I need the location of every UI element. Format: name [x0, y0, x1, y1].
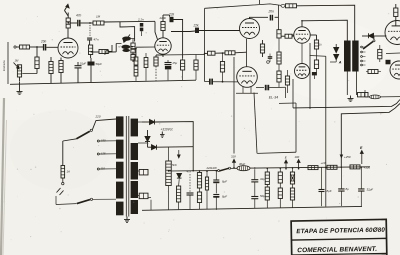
arrow tap A upper [334, 44, 339, 53]
wire tone to V2 grid [131, 48, 136, 50]
resistor Rx 146 [144, 58, 148, 68]
wire R6 right run [104, 20, 155, 23]
svg-text:47k: 47k [187, 170, 192, 174]
tap contact 110 [97, 168, 99, 170]
resistor R10 tone slope [131, 43, 135, 53]
resistor R16b middle drop [220, 62, 224, 73]
tube V3b phase splitter [237, 67, 258, 88]
transformer T2 secondary winding [131, 119, 138, 214]
negative feedback wire down [204, 8, 206, 81]
svg-text:1M: 1M [15, 59, 20, 63]
wire grid loop bottom [257, 152, 296, 153]
resistor R1 input series [20, 45, 30, 49]
capacitor C NFB series [209, 79, 213, 85]
wire speaker return long [293, 100, 400, 108]
resistor R27b mid right [368, 70, 378, 74]
arrow feed diode [177, 150, 180, 158]
resistor R16 NFB2 [225, 51, 235, 55]
tube V4b EL34 lower [295, 64, 310, 79]
capacitor C13 32uF [251, 197, 258, 199]
wire top rail NFB [205, 4, 281, 8]
diode D3 rectifier mid [145, 137, 150, 142]
cathode net V2 [162, 54, 164, 57]
resistor R19 below splitter [260, 44, 264, 53]
bottom ground rail [142, 206, 362, 210]
wire OT bottom left [346, 72, 348, 96]
resistor R27 heater tap [139, 169, 148, 175]
resistor R6 1M [93, 21, 104, 25]
wire branch to tone [120, 22, 135, 42]
resistor R8 [99, 50, 108, 54]
svg-text:20n: 20n [268, 10, 275, 14]
trimmer R34a upper [290, 172, 294, 184]
wire V4b grid drop [292, 79, 294, 108]
tube V5b EL34 right lower [390, 61, 400, 79]
arrow node 318 [233, 159, 236, 168]
ground bus top section [10, 80, 196, 84]
wire jack to R1 [16, 46, 20, 48]
wire V3a to V3b link [246, 39, 248, 67]
heater return drop [150, 200, 152, 210]
wire to primary top [92, 119, 116, 130]
resistor R25 top right [394, 8, 398, 17]
tap contact 125 [97, 153, 99, 155]
resistor R18 link [285, 34, 292, 38]
resistor R10c stack lower [134, 66, 138, 76]
capacitor C9 [187, 193, 194, 195]
tube V3a voltage amp [240, 19, 260, 39]
svg-text:5k6: 5k6 [172, 163, 177, 167]
wire loop top y114 [341, 104, 400, 168]
svg-text:32μF: 32μF [367, 188, 374, 192]
resistor R12 V2 plate 220k [161, 22, 165, 31]
secondary tap heater stub [138, 170, 139, 172]
svg-text:22k: 22k [193, 24, 200, 28]
wire jack2 right [109, 51, 116, 53]
wire V5 left [380, 35, 387, 37]
resistor R11 lower [131, 55, 135, 61]
wire R7 to R8 [90, 55, 92, 59]
wire C8 node up to NFB [278, 5, 280, 17]
ground OT [348, 96, 354, 102]
standby switch node a [218, 170, 220, 172]
resistor bleeder 207 [205, 177, 208, 190]
wire cap to loop [269, 86, 285, 88]
top edge stub wire [258, 0, 260, 4]
svg-text:100: 100 [295, 155, 300, 159]
wire C1 to V1 grid [46, 46, 58, 48]
transformer T2 primary winding [116, 116, 124, 215]
resistor R33a upper [278, 172, 282, 183]
input jack terminal [14, 46, 16, 48]
tube V4 EL34 upper [294, 27, 310, 43]
resistor R32 [265, 187, 269, 200]
resistor R4 cathode left [49, 62, 53, 74]
output transformer T1 primary [344, 41, 351, 72]
vertical long drop x234 [233, 57, 235, 154]
tube V1 triode [58, 38, 78, 58]
wire C8 node down [278, 17, 280, 29]
resistor R17 grid EL34 a [277, 30, 281, 38]
wire jack2 riser [115, 44, 117, 52]
capacitor C8 20n to output [270, 15, 273, 21]
svg-text:220: 220 [95, 115, 101, 119]
diode D4 rectifier lower [152, 145, 157, 150]
wire V1 plate [67, 28, 69, 38]
wire fuse up [62, 141, 64, 166]
title block outer box [291, 219, 387, 255]
capacitor C15 32uF [338, 189, 344, 191]
wire C8 right and down [275, 16, 279, 18]
capacitor C spk blk [386, 60, 391, 65]
resistor R35 dropper 1 [308, 166, 318, 170]
switch contact top [90, 129, 92, 131]
wire center tap long drop [325, 56, 327, 206]
junction dots [204, 53, 206, 55]
svg-text:150: 150 [101, 139, 106, 143]
svg-text:8μ: 8μ [346, 187, 350, 191]
resistor R14c 196 [194, 60, 198, 70]
resistor R32a upper [265, 172, 269, 185]
svg-text:Entrada: Entrada [2, 60, 6, 71]
svg-text:+310Vcc: +310Vcc [161, 128, 174, 132]
standby switch node b [229, 167, 231, 169]
wire V3b out to cap [256, 87, 264, 89]
resistor R15 NFB [208, 51, 216, 55]
wire R8 up [108, 45, 112, 52]
svg-text:+100: +100 [364, 165, 371, 169]
svg-text:47n: 47n [76, 14, 82, 18]
wire D2 out [155, 122, 194, 171]
speaker selector arm [363, 42, 373, 50]
capacitor C10 8uF [213, 180, 219, 182]
svg-text:32μ: 32μ [260, 177, 265, 181]
wire node down dashed [89, 25, 91, 37]
resistor R20d lower [277, 71, 281, 82]
wire C6 down [141, 31, 143, 36]
wire grid V5b [386, 52, 400, 55]
capacitor C4 10uF bypass [75, 66, 82, 68]
wire tone net [130, 46, 133, 48]
arrow feed 250 marker [340, 155, 344, 159]
tube V5 EL34 right upper [385, 21, 400, 45]
wire OT bottom right [356, 72, 358, 96]
svg-text:25μ: 25μ [172, 61, 178, 65]
wire into V2 grid [155, 22, 158, 40]
main B+ rail left [169, 170, 218, 172]
wire V4 link [301, 43, 303, 63]
selector feed wire [373, 36, 375, 40]
capacitor C1 20n coupling [43, 44, 46, 51]
wire plug bottom [55, 196, 57, 205]
svg-text:50μF: 50μF [96, 62, 103, 66]
resistor R10b stack upper [134, 57, 138, 65]
capacitor C13a 32uF upper [251, 180, 258, 182]
wire R17 down [278, 38, 280, 52]
svg-text:1A: 1A [67, 170, 71, 174]
capacitor C5 50uF black [88, 62, 95, 66]
node plate V1 [67, 22, 69, 24]
output transformer T1 secondary [352, 41, 358, 72]
resistor R9 cathode 2k2 [59, 61, 63, 73]
resistor R31 [197, 192, 201, 203]
wire grid loop left [254, 93, 257, 154]
svg-text:1M: 1M [96, 15, 101, 19]
resistor R24 cathode EL34 [314, 60, 318, 69]
mains plug symbol [57, 188, 64, 195]
svg-text:8μF: 8μF [327, 189, 332, 193]
speaker line 16ohm [370, 95, 381, 99]
title row divider [291, 238, 386, 240]
capacitor C16 32uF right [358, 189, 364, 191]
resistor R31a [197, 173, 201, 189]
capacitor C4b 25u V2 bypass [165, 63, 172, 65]
title bottom divider [292, 253, 387, 255]
resistor R7 [89, 45, 93, 55]
svg-text:47n: 47n [94, 38, 99, 42]
capacitor C6 2.2n [140, 23, 144, 27]
resistor R14b 182 [181, 60, 185, 70]
tube V2 triode [155, 38, 171, 54]
resistor R27c low right [358, 93, 369, 97]
svg-text:220k: 220k [159, 16, 167, 20]
wire V2 out [171, 31, 190, 33]
resistor R20c mid [277, 52, 281, 64]
wire V2 plate run right [174, 20, 183, 59]
resistor R26 speaker [378, 49, 382, 58]
svg-text:220k2W: 220k2W [206, 166, 218, 170]
mains switch arm top [63, 139, 77, 141]
tap contact 150 [97, 140, 99, 142]
main B+ rail right [250, 167, 370, 168]
wire C2 to R6 [81, 22, 93, 24]
svg-text:22k: 22k [168, 13, 175, 17]
svg-text:A: A [338, 61, 342, 65]
arrow net E out [285, 160, 288, 169]
wire V4 grid [292, 34, 294, 36]
secondary tap heater stub 2 [138, 195, 139, 197]
potentiometer tone 1 lens [122, 37, 131, 41]
svg-text:COMERCIAL BENAVENT.: COMERCIAL BENAVENT. [297, 246, 377, 254]
resistor R18b right mid [285, 76, 289, 85]
wire input ground drop [7, 42, 9, 84]
wire R13 to V3 [199, 30, 240, 32]
svg-text:E: E [285, 156, 287, 160]
wire R1 to node A [30, 46, 44, 48]
svg-text:125: 125 [101, 152, 106, 156]
wire cathode join splitter [183, 53, 205, 55]
svg-text:10μF: 10μF [80, 62, 87, 66]
fuse F1 [61, 166, 65, 179]
resistor R36 dropper 2 [327, 165, 337, 169]
diode D1 bias [369, 33, 374, 38]
speaker selector contacts [361, 46, 363, 48]
svg-text:20n: 20n [40, 40, 47, 44]
wire V3b bottom rail [236, 92, 258, 94]
svg-text:+10: +10 [321, 161, 326, 165]
wire V3b cathode legs [242, 87, 244, 94]
resistor R23 screen [314, 40, 318, 49]
svg-text:8μF: 8μF [222, 195, 227, 199]
wire tone to grid V2 [136, 46, 155, 48]
capacitor C11 8uF lower [213, 195, 219, 197]
resistor R14 [154, 57, 158, 66]
resistor R29 bleeder 5k6 tall [166, 161, 172, 186]
resistor R3 below node A [35, 57, 39, 69]
wire R22 to OT secondary [297, 5, 355, 40]
wire V4b to center tap [310, 55, 326, 58]
scan edge smudge left [1, 98, 4, 255]
secondary tap stub 1 [138, 121, 142, 123]
capacitor C3 47n grid [87, 38, 92, 40]
resistor R28 heater tap 2 [139, 193, 148, 199]
diode D5 [177, 174, 182, 179]
svg-text:110: 110 [101, 167, 106, 171]
arrow E out [360, 151, 363, 165]
arrow net 100 out [297, 160, 300, 169]
wire V3a plate up [250, 17, 269, 18]
resistor R5 plate 220k [66, 18, 70, 28]
wire R2 wiper link [22, 73, 37, 75]
capacitor C50n out [265, 85, 269, 91]
capacitor C14 8uF [319, 190, 325, 192]
resistor R22 NFB series 220k [286, 4, 297, 8]
wire V4 down [309, 43, 311, 108]
svg-text:8μF: 8μF [222, 180, 227, 184]
transformer T2 core [125, 116, 127, 217]
ground small rectifier [160, 132, 165, 138]
wire grid loop top [279, 102, 296, 104]
potentiometer tone 2 lower lens [122, 49, 130, 52]
ground symbol main [17, 89, 23, 95]
diode D2 rectifier top [150, 120, 155, 125]
svg-text:+250: +250 [344, 155, 351, 159]
capacitor C small mid [268, 57, 273, 59]
potentiometer tone 2 lens [121, 45, 130, 49]
svg-text:50μ: 50μ [260, 194, 265, 198]
svg-text:30μF: 30μF [239, 162, 245, 166]
choke L1 [237, 166, 250, 171]
resistor R33 [278, 188, 282, 199]
input jack 2 [106, 50, 109, 53]
wire V4 plate to OT [302, 20, 347, 40]
svg-text:318: 318 [231, 154, 236, 158]
standby switch arm [220, 168, 229, 171]
wire grid loop right [295, 103, 297, 152]
arrow tap A lower [334, 54, 339, 60]
capacitor C2 47n [77, 20, 80, 27]
svg-text:2,2n: 2,2n [137, 18, 144, 22]
mains switch arm bottom [56, 203, 77, 206]
svg-text:EL-34: EL-34 [269, 95, 278, 99]
cathode wires V1 [60, 58, 62, 61]
capacitor C cathode blk [312, 72, 317, 75]
resistor R34 [290, 188, 294, 200]
potentiometer R2 volume 1M [17, 65, 21, 77]
ground transformer [124, 217, 130, 223]
resistor R37 dropper 3 [350, 165, 360, 169]
resistor R30 [177, 186, 181, 202]
wire C3 down [89, 40, 91, 45]
supply arrow B+ V1 [65, 4, 70, 16]
